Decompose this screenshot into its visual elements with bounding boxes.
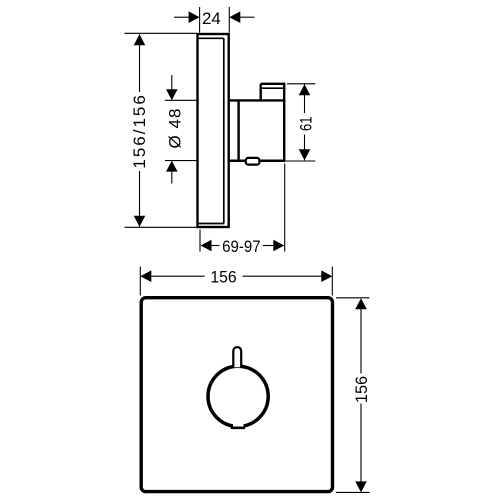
dimension 156/156 top arrow bbox=[134, 34, 146, 45]
handle pointer tab (top) white fill bbox=[233, 347, 241, 367]
dimension 156 top line left segment bbox=[151, 275, 205, 277]
plate inner top line bbox=[199, 37, 224, 39]
dimension 156/156 bottom arrow bbox=[134, 216, 146, 227]
valve body right edge bbox=[283, 84, 285, 162]
dimension 69-97 right extension line bbox=[284, 164, 286, 252]
dimension 61 top arrow bbox=[299, 84, 311, 95]
dimension 24 left extension line bbox=[199, 7, 201, 33]
dimension 156 right top arrow bbox=[355, 298, 367, 309]
handle circle bbox=[208, 366, 268, 426]
dimension 156/156 line lower segment bbox=[139, 171, 141, 227]
svg-text:Ø 48: Ø 48 bbox=[165, 109, 184, 149]
dimension 61 bottom arrow bbox=[299, 149, 311, 160]
valve body top line bbox=[229, 99, 286, 101]
dimension 156 top left arrow bbox=[140, 270, 151, 282]
dimension 69-97 right arrow and tail bbox=[273, 240, 284, 252]
dimension 156 right line lower segment bbox=[360, 404, 362, 482]
dimension diameter 48 bottom arrow and tail bbox=[171, 171, 173, 184]
dimension 61 bottom extension line bbox=[285, 160, 315, 162]
dimension 156 top right arrow bbox=[321, 270, 332, 282]
svg-text:156: 156 bbox=[352, 376, 371, 403]
dimension 24 right arrow and tail bbox=[240, 16, 255, 18]
svg-text:61: 61 bbox=[297, 117, 316, 132]
handle pointer tab (top) outline bbox=[233, 347, 241, 367]
dimension 24 right extension line bbox=[228, 7, 230, 33]
dimension 156/156 top extension line bbox=[125, 32, 197, 34]
dimension 156 top left extension line bbox=[139, 267, 141, 296]
dimension 61 line lower segment bbox=[304, 135, 306, 161]
dimension diameter 48 top extension tick bbox=[165, 99, 197, 101]
handle top step inner line bbox=[261, 87, 286, 89]
dimension 156/156 bottom extension line bbox=[125, 226, 197, 228]
dimension diameter 48 bottom extension tick bbox=[165, 160, 197, 162]
dimension 156 top right extension line bbox=[331, 267, 333, 296]
svg-text:69-97: 69-97 bbox=[222, 237, 261, 256]
dimension 69-97 left extension line bbox=[199, 230, 201, 252]
svg-text:24: 24 bbox=[202, 9, 221, 28]
handle top step top edge bbox=[261, 83, 286, 85]
valve body bottom line bbox=[229, 160, 285, 163]
dimension 156 right bottom arrow bbox=[355, 481, 367, 492]
svg-text:156: 156 bbox=[210, 267, 236, 286]
dimension 156 top line right segment bbox=[243, 275, 322, 277]
dimension 61 line upper segment bbox=[304, 84, 306, 113]
plate inner face line vertical bbox=[223, 38, 225, 223]
dimension 156 right line upper segment bbox=[360, 309, 362, 374]
dimension 156 right bottom extension line bbox=[336, 491, 370, 493]
dimension 61 top extension line bbox=[287, 83, 315, 85]
dimension 156 right top extension line bbox=[336, 297, 370, 299]
handle top step left edge bbox=[260, 84, 262, 101]
dimension 156/156 line upper segment bbox=[139, 34, 141, 92]
dimension 24 left arrow and tail bbox=[174, 16, 189, 18]
escutcheon plate front view square bbox=[141, 298, 332, 492]
safety button tab at valve bottom bbox=[246, 158, 260, 165]
dimension 69-97 left arrow and tail bbox=[201, 240, 212, 252]
plate inner bottom line bbox=[199, 223, 224, 225]
valve body left edge bbox=[237, 100, 239, 160]
dimension diameter 48 top arrow and tail bbox=[171, 75, 173, 90]
handle bottom notch white gap bbox=[233, 421, 244, 427]
escutcheon plate side view outer outline bbox=[198, 34, 229, 227]
handle bottom notch bar bbox=[231, 427, 246, 430]
